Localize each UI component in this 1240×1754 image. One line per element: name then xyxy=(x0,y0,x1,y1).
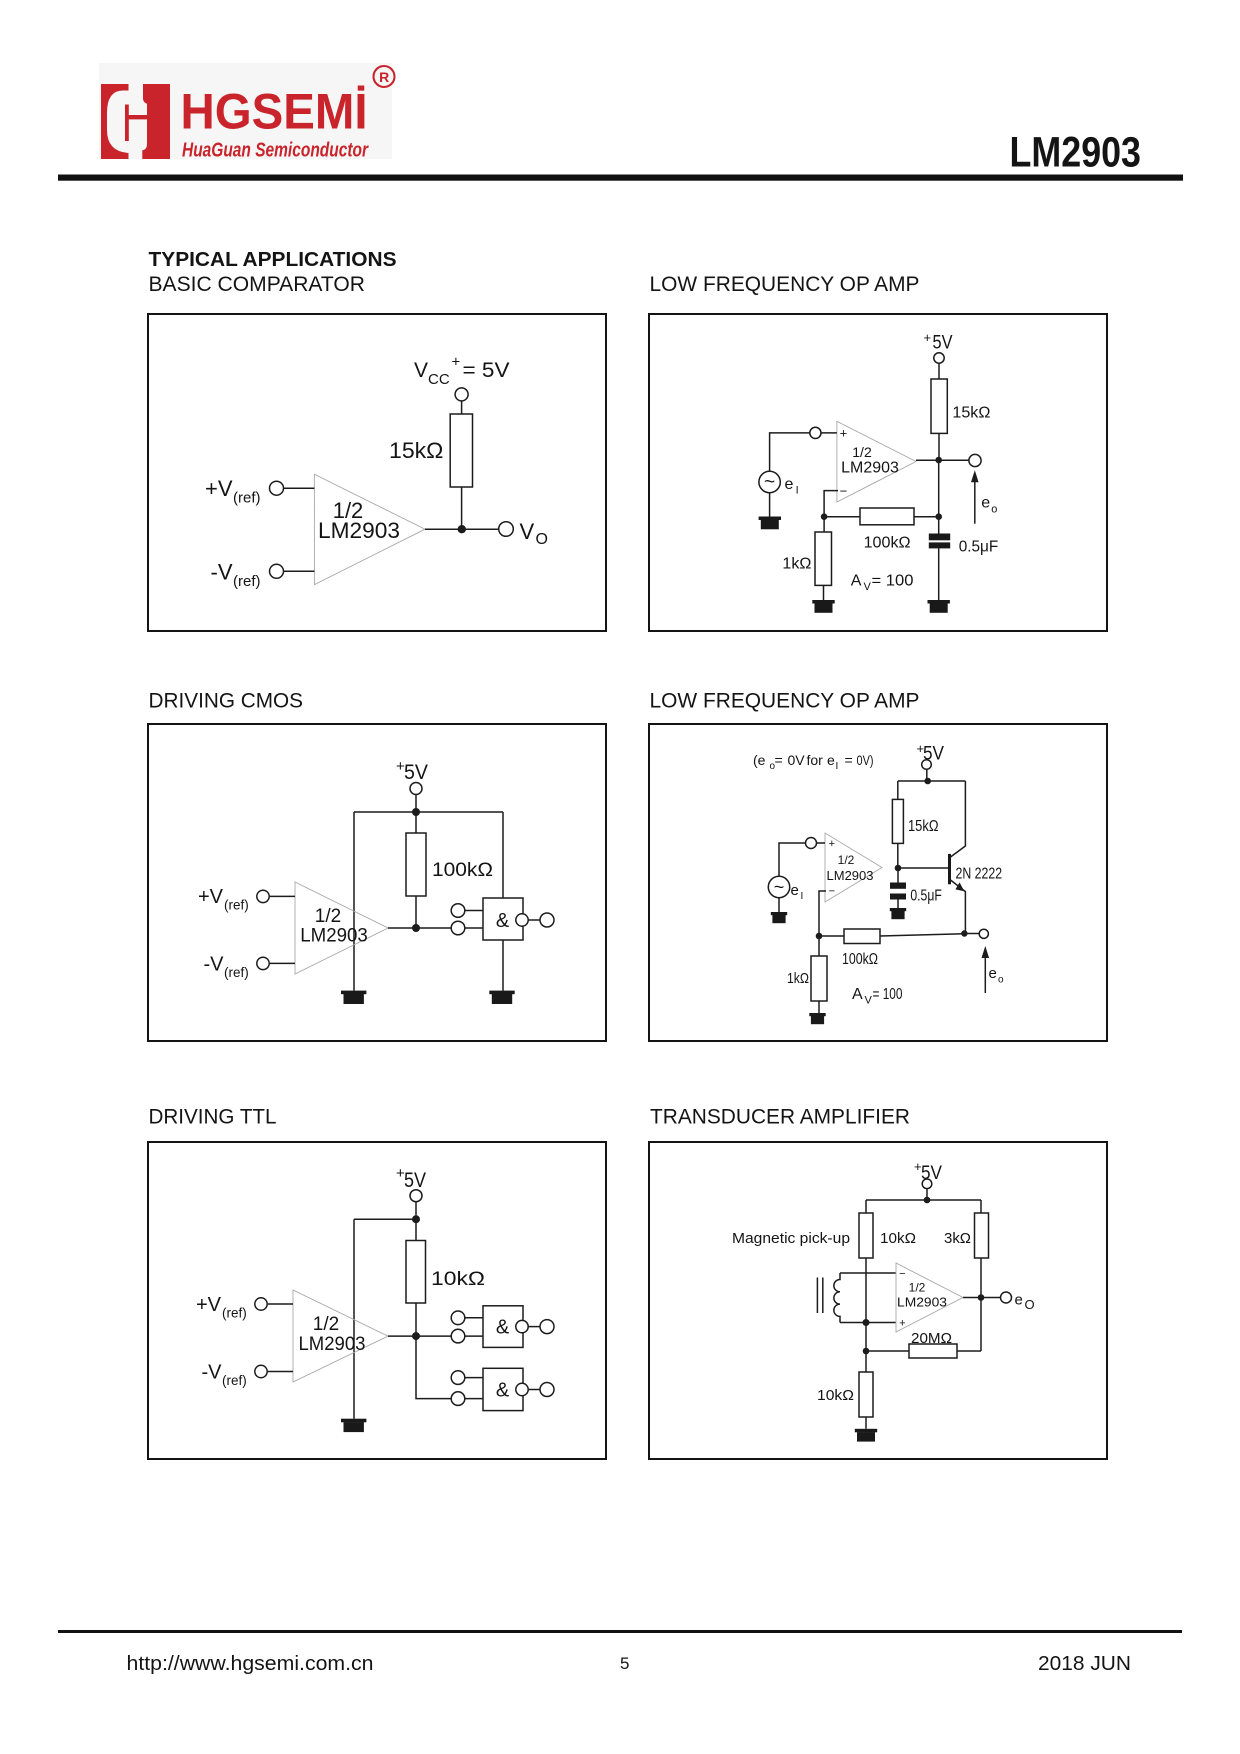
svg-text:-V: -V xyxy=(204,953,225,975)
node output junction xyxy=(458,525,466,533)
wire 5V to rail xyxy=(415,795,417,812)
wire -Vref to U3 xyxy=(270,962,295,964)
svg-text:O: O xyxy=(536,531,548,548)
svg-text:5V: 5V xyxy=(933,333,953,354)
terminal gate output bubble xyxy=(516,914,528,926)
terminal -Vref xyxy=(270,564,284,578)
transistor Q1 base bar xyxy=(948,854,951,884)
wire gate2 output stub xyxy=(528,1389,540,1391)
wire R6 to base node xyxy=(897,843,899,868)
svg-text:=: = xyxy=(775,752,783,768)
svg-text:LOW FREQUENCY OP AMP: LOW FREQUENCY OP AMP xyxy=(650,690,920,713)
svg-text:5V: 5V xyxy=(404,761,428,784)
svg-text:HGSEMİ: HGSEMİ xyxy=(181,84,368,140)
wire node to R3 xyxy=(824,516,860,518)
svg-text:=: = xyxy=(845,752,853,768)
svg-text:e: e xyxy=(981,495,990,512)
svg-text:&: & xyxy=(496,1380,510,1402)
ground under capacitor xyxy=(890,908,906,919)
node feedback junction xyxy=(863,1348,870,1355)
svg-text:+: + xyxy=(452,354,461,371)
svg-text:HuaGuan Semiconductor: HuaGuan Semiconductor xyxy=(182,140,369,162)
svg-text:I: I xyxy=(796,485,799,497)
wire gate bottom to ground xyxy=(502,940,504,991)
resistor R5 100k xyxy=(406,833,426,896)
terminal gate1 input upper xyxy=(451,1311,465,1325)
terminal gate input lower xyxy=(451,921,465,935)
inductor core lines xyxy=(817,1278,822,1314)
svg-text:100kΩ: 100kΩ xyxy=(864,535,911,552)
svg-text:LM2903: LM2903 xyxy=(841,459,899,476)
terminal gate1 input lower xyxy=(451,1329,465,1343)
svg-text:DRIVING CMOS: DRIVING CMOS xyxy=(149,690,304,713)
svg-text:10kΩ: 10kΩ xyxy=(431,1269,485,1290)
svg-text:o: o xyxy=(991,504,997,516)
resistor R4 1k xyxy=(815,532,832,585)
svg-text:&: & xyxy=(496,1317,510,1339)
svg-text:(ref): (ref) xyxy=(222,1373,247,1388)
gate U8 AND body xyxy=(483,1368,523,1410)
terminal output xyxy=(969,454,981,466)
wire supply rail xyxy=(354,1218,416,1220)
terminal noninverting input xyxy=(810,427,821,438)
footer rule xyxy=(58,1630,1182,1633)
source eI sine generator xyxy=(759,471,780,492)
label +V(ref) xyxy=(198,886,249,913)
node emitter output junction xyxy=(961,930,967,936)
op-amp U6 1/2 LM2903 xyxy=(293,1290,388,1382)
wire gate1 lower stub xyxy=(465,1335,483,1337)
label eo xyxy=(981,495,997,516)
wire R7 to output node xyxy=(880,934,964,936)
svg-text:1/2: 1/2 xyxy=(909,1281,926,1295)
svg-text:2018 JUN: 2018 JUN xyxy=(1038,1653,1131,1675)
node plus input junction xyxy=(863,1319,870,1326)
svg-text:15kΩ: 15kΩ xyxy=(389,438,443,463)
arrow eo xyxy=(982,946,990,993)
op-amp U3 1/2 LM2903 xyxy=(295,882,388,974)
svg-text:V: V xyxy=(865,995,873,1007)
node rail junction xyxy=(412,1215,420,1223)
svg-text:~: ~ xyxy=(764,472,775,493)
svg-text:+V: +V xyxy=(196,1294,222,1316)
node rail junction xyxy=(924,778,931,785)
capacitor C1 0.5uF xyxy=(929,534,950,549)
terminal +5V xyxy=(410,1190,422,1202)
label AV = 100 xyxy=(851,573,914,594)
terminal gate2 input upper xyxy=(451,1371,465,1385)
svg-text:for: for xyxy=(807,752,824,768)
svg-text:3kΩ: 3kΩ xyxy=(944,1230,971,1247)
ground under left rail xyxy=(341,1419,366,1432)
wire +Vref to U6 xyxy=(268,1303,293,1305)
op-amp U9 1/2 LM2903 xyxy=(896,1263,963,1332)
svg-text:20MΩ: 20MΩ xyxy=(911,1330,952,1347)
resistor R10 10k xyxy=(859,1213,873,1258)
op-amp U5 1/2 LM2903 xyxy=(825,833,882,902)
svg-text:−: − xyxy=(829,886,835,898)
svg-text:I: I xyxy=(801,891,804,902)
svg-text:= 100: = 100 xyxy=(872,573,914,590)
wire supply rail xyxy=(354,811,503,813)
svg-text:1kΩ: 1kΩ xyxy=(782,556,811,573)
resistor R8 1k xyxy=(811,956,827,1001)
svg-text:R: R xyxy=(379,69,389,85)
node R2 output junction xyxy=(935,457,942,464)
wire feedback right segment xyxy=(957,1350,981,1352)
wire U2 output to terminal xyxy=(916,459,969,461)
svg-text:I: I xyxy=(836,761,839,772)
wire rail to R6 xyxy=(897,781,899,799)
svg-text:LM2903: LM2903 xyxy=(1010,129,1142,177)
svg-text:TYPICAL APPLICATIONS: TYPICAL APPLICATIONS xyxy=(149,249,397,271)
svg-text:o: o xyxy=(998,975,1004,986)
wire U6 output to gate1 xyxy=(388,1335,453,1337)
svg-text:LM2903: LM2903 xyxy=(299,1334,366,1355)
wire R8 to ground xyxy=(818,1001,820,1013)
svg-text:0.5μF: 0.5μF xyxy=(959,539,999,556)
svg-text:-V: -V xyxy=(211,559,233,584)
node feedback left junction xyxy=(821,513,828,520)
ground under R4 xyxy=(812,600,834,613)
wire upper stub xyxy=(465,910,483,912)
svg-text:LM2903: LM2903 xyxy=(300,926,368,947)
node rail junction xyxy=(924,1197,931,1204)
label eI xyxy=(791,882,804,902)
svg-text:−: − xyxy=(840,484,848,499)
wire feedback left segment xyxy=(866,1350,909,1352)
svg-text:+V: +V xyxy=(198,886,224,908)
wire source to ground xyxy=(778,898,780,912)
wire -Vref to U6 xyxy=(268,1371,293,1373)
label -V(ref) xyxy=(204,953,249,980)
terminal gate input upper xyxy=(451,904,465,918)
header rule xyxy=(58,175,1183,181)
wire terminal to source xyxy=(779,843,806,876)
wire base node to capacitor xyxy=(897,868,899,883)
wire R1 to output node xyxy=(461,487,463,529)
terminal +Vref xyxy=(257,890,269,902)
wire rail to R11 xyxy=(980,1200,982,1213)
svg-text:CC: CC xyxy=(428,371,450,388)
wire gate1 output stub xyxy=(528,1326,540,1328)
terminal gate1 output outer xyxy=(540,1320,554,1334)
node output junction xyxy=(412,924,420,932)
terminal gate2 input lower xyxy=(451,1392,465,1406)
wire U2 plus input to terminal xyxy=(821,432,837,434)
svg-text:10kΩ: 10kΩ xyxy=(817,1387,854,1404)
wire right rail drop to gate xyxy=(502,812,504,898)
terminal gate output outer xyxy=(540,913,554,927)
svg-text:5: 5 xyxy=(620,1654,629,1673)
note eo 0V for eI 0V xyxy=(753,752,874,772)
HGSEMI logo icon xyxy=(101,84,170,159)
svg-text:0.5μF: 0.5μF xyxy=(910,888,942,905)
svg-text:(ref): (ref) xyxy=(224,898,249,913)
wire R3 to output line xyxy=(914,516,939,518)
node feedback right junction xyxy=(935,513,942,520)
wire branch down to gate2 xyxy=(416,1336,453,1399)
svg-text:-V: -V xyxy=(202,1362,223,1384)
op-amp U1 1/2 LM2903 xyxy=(314,474,425,584)
svg-text:1/2: 1/2 xyxy=(313,1314,339,1335)
svg-text:DRIVING TTL: DRIVING TTL xyxy=(149,1106,277,1129)
terminal gate1 output bubble xyxy=(516,1320,528,1332)
terminal output xyxy=(1001,1292,1012,1303)
svg-text:−: − xyxy=(899,1268,905,1280)
ground under capacitor xyxy=(928,600,950,613)
wire terminal to corner xyxy=(770,433,810,471)
resistor R9 10k xyxy=(406,1241,426,1304)
wire node to R7 xyxy=(819,935,844,937)
svg-text:e: e xyxy=(785,476,794,493)
resistor R11 3k xyxy=(975,1213,989,1258)
svg-text:= 100: = 100 xyxy=(873,986,903,1003)
wire minus input line xyxy=(840,1272,896,1274)
wire output stub xyxy=(528,919,540,921)
figure 3 frame xyxy=(148,724,606,1041)
resistor R7 100k feedback xyxy=(844,929,880,944)
wire plus input line xyxy=(840,1322,896,1324)
wire feedback node to R8 xyxy=(818,936,820,956)
label AV = 100 xyxy=(852,986,903,1007)
wire +Vref to U1 xyxy=(284,487,315,489)
svg-text:LM2903: LM2903 xyxy=(897,1295,947,1310)
svg-text:100kΩ: 100kΩ xyxy=(842,951,878,968)
resistor R6 15k xyxy=(892,799,903,843)
svg-text:e: e xyxy=(989,965,997,982)
label +5V xyxy=(396,758,428,784)
label +5V xyxy=(914,1159,942,1184)
wire left rail drop to ground xyxy=(353,812,355,991)
wire source to ground xyxy=(769,493,771,517)
label +5V xyxy=(396,1165,426,1192)
wire output node to terminal xyxy=(964,933,979,935)
svg-text:1kΩ: 1kΩ xyxy=(787,970,809,987)
ground under gate xyxy=(489,991,514,1004)
svg-text:LM2903: LM2903 xyxy=(827,868,874,883)
terminal noninverting input xyxy=(806,838,817,849)
label VCC+ = 5V xyxy=(414,354,510,389)
wire base xyxy=(898,867,948,869)
svg-text:+: + xyxy=(840,425,848,440)
svg-text:V: V xyxy=(864,581,872,593)
wire lower stub xyxy=(465,927,483,929)
ground under left rail xyxy=(341,991,366,1004)
resistor R2 15k xyxy=(931,379,947,433)
svg-text:LOW FREQUENCY OP AMP: LOW FREQUENCY OP AMP xyxy=(650,273,920,296)
svg-text:TRANSDUCER AMPLIFIER: TRANSDUCER AMPLIFIER xyxy=(650,1106,910,1129)
wire capacitor to ground xyxy=(938,548,940,600)
capacitor C2 0.5uF xyxy=(890,883,906,900)
svg-text:A: A xyxy=(851,573,862,590)
wire R9 to output node xyxy=(415,1303,417,1336)
svg-text:+V: +V xyxy=(205,476,233,501)
svg-text:1/2: 1/2 xyxy=(852,444,872,460)
wire -Vref to U1 xyxy=(284,570,315,572)
ground under eI xyxy=(759,517,781,530)
label -V(ref) xyxy=(202,1362,247,1389)
ground under R13 xyxy=(855,1429,877,1442)
svg-text:100kΩ: 100kΩ xyxy=(432,860,493,881)
svg-text:+: + xyxy=(829,838,835,850)
svg-text:O: O xyxy=(1025,1297,1035,1312)
svg-text:http://www.hgsemi.com.cn: http://www.hgsemi.com.cn xyxy=(127,1653,374,1675)
svg-text:A: A xyxy=(852,986,863,1003)
wire output node down to capacitor xyxy=(938,460,940,534)
resistor R3 100k feedback xyxy=(860,508,914,525)
terminal +Vref xyxy=(255,1298,267,1310)
label eO xyxy=(1015,1292,1035,1313)
terminal VO xyxy=(499,522,514,537)
wire U1 output to VO xyxy=(425,528,499,530)
resistor R13 10k bottom xyxy=(859,1372,873,1417)
label eI xyxy=(785,476,799,497)
svg-text:1/2: 1/2 xyxy=(838,853,855,867)
transistor Q1 emitter xyxy=(951,880,966,934)
svg-text:e: e xyxy=(1015,1292,1023,1309)
wire +Vref to U3 xyxy=(270,895,295,897)
svg-text:e: e xyxy=(791,882,799,899)
wire rail to R9 xyxy=(415,1219,417,1240)
wire 5V to rail xyxy=(926,769,928,781)
svg-text:(ref): (ref) xyxy=(233,490,261,507)
svg-text:BASIC COMPARATOR: BASIC COMPARATOR xyxy=(149,273,366,296)
svg-text:V: V xyxy=(520,519,535,544)
terminal gate2 output bubble xyxy=(516,1383,528,1395)
node output junction xyxy=(412,1332,420,1340)
svg-text:&: & xyxy=(496,910,510,932)
svg-text:+: + xyxy=(924,330,932,345)
wire supply rail xyxy=(866,1199,981,1201)
wire VCC to R1 xyxy=(461,401,463,414)
node base junction xyxy=(895,865,902,872)
op-amp U2 1/2 LM2903 xyxy=(837,421,916,502)
wire R11 down to feedback xyxy=(980,1258,982,1351)
wire 5V to R2 xyxy=(938,363,940,379)
terminal -Vref xyxy=(257,957,269,969)
node feedback left junction xyxy=(816,933,823,940)
svg-text:5V: 5V xyxy=(404,1169,426,1192)
label -V(ref) xyxy=(211,559,261,590)
svg-text:15kΩ: 15kΩ xyxy=(952,405,990,422)
wire 5V to rail xyxy=(415,1202,417,1219)
ground under eI xyxy=(771,912,787,923)
terminal +5V xyxy=(922,760,932,770)
svg-text:2N 2222: 2N 2222 xyxy=(956,866,1003,883)
label +5V xyxy=(924,330,953,354)
gate U4 AND body xyxy=(483,898,523,940)
wire gate2 upper stub xyxy=(465,1377,483,1379)
svg-text:+: + xyxy=(899,1318,905,1330)
svg-text:1/2: 1/2 xyxy=(315,906,341,927)
node rail junction xyxy=(412,808,420,816)
svg-text:= 5V: = 5V xyxy=(463,359,510,382)
gate U7 AND body xyxy=(483,1306,523,1348)
figure 5 frame xyxy=(148,1142,606,1459)
wire gate1 upper stub xyxy=(465,1317,483,1319)
figure 6 frame xyxy=(649,1142,1107,1459)
wire R10 down the left column xyxy=(865,1258,867,1372)
svg-text:(e: (e xyxy=(753,752,766,768)
wire gate2 lower stub xyxy=(465,1398,483,1400)
ground under R8 xyxy=(809,1013,825,1024)
arrow eo xyxy=(971,470,979,523)
source eI sine generator xyxy=(768,876,789,897)
svg-text:0V): 0V) xyxy=(857,752,874,768)
label +5V xyxy=(917,741,945,765)
svg-text:10kΩ: 10kΩ xyxy=(880,1230,916,1247)
logo background plate xyxy=(99,63,392,159)
registered trademark symbol xyxy=(374,66,395,87)
wire R13 to ground xyxy=(865,1417,867,1429)
svg-text:Magnetic pick-up: Magnetic pick-up xyxy=(732,1230,850,1247)
wire R2 to output node xyxy=(938,433,940,460)
terminal +5V xyxy=(410,783,422,795)
label VO xyxy=(520,519,548,548)
terminal +5V xyxy=(934,353,944,363)
wire capacitor to ground xyxy=(897,900,899,909)
svg-text:LM2903: LM2903 xyxy=(318,518,400,543)
label +V(ref) xyxy=(196,1294,247,1321)
wire U5 minus corner to feedback node xyxy=(819,891,826,936)
node output junction xyxy=(978,1294,985,1301)
terminal output xyxy=(979,929,988,938)
wire U9 output to terminal xyxy=(963,1297,1001,1299)
wire 5V to rail xyxy=(926,1189,928,1200)
terminal +5V xyxy=(922,1179,932,1189)
terminal VCC xyxy=(455,388,468,401)
svg-text:e: e xyxy=(827,752,835,768)
wire U3 output to gate input xyxy=(388,927,453,929)
transistor Q1 collector xyxy=(951,781,966,857)
wire R4 to ground xyxy=(823,585,825,600)
wire U2 minus input corner to feedback node xyxy=(824,491,838,517)
svg-text:(ref): (ref) xyxy=(233,573,261,590)
svg-text:15kΩ: 15kΩ xyxy=(908,818,939,835)
wire R5 to output node xyxy=(415,896,417,928)
figure 2 frame xyxy=(649,314,1107,631)
resistor R1 15k xyxy=(450,414,472,487)
transistor Q1 emitter arrowhead xyxy=(955,882,964,891)
label eo xyxy=(989,965,1005,986)
terminal -Vref xyxy=(255,1365,267,1377)
figure 1 frame xyxy=(148,314,606,631)
svg-text:~: ~ xyxy=(774,877,785,897)
inductor L1 coil xyxy=(834,1273,840,1323)
wire rail to R5 xyxy=(415,812,417,833)
svg-text:(ref): (ref) xyxy=(224,965,249,980)
resistor R12 20M feedback xyxy=(909,1344,957,1358)
wire left rail drop to ground xyxy=(353,1219,355,1419)
svg-text:(ref): (ref) xyxy=(222,1306,247,1321)
terminal +Vref xyxy=(270,481,284,495)
terminal gate2 output outer xyxy=(540,1383,554,1397)
wire feedback node to R4 xyxy=(823,517,825,532)
wire supply rail xyxy=(898,780,966,782)
svg-text:V: V xyxy=(414,359,428,382)
label +V(ref) xyxy=(205,476,261,507)
figure 4 frame xyxy=(649,724,1107,1041)
wire rail to R10 xyxy=(865,1200,867,1213)
svg-text:0V: 0V xyxy=(788,752,806,768)
wire U5 plus input xyxy=(817,842,826,844)
